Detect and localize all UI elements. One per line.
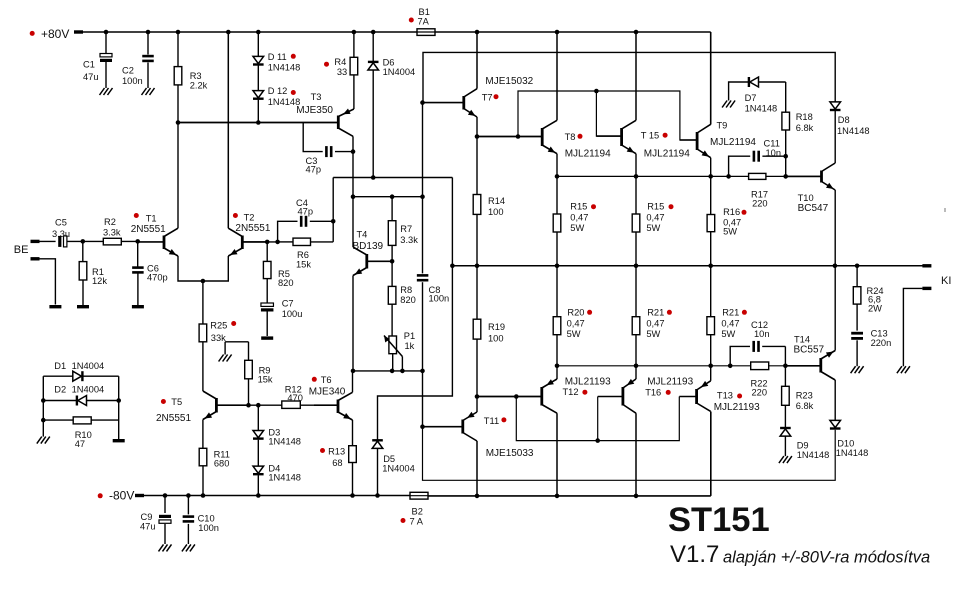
resistor R3 2.2k xyxy=(176,30,181,35)
wire -80V rail end rise to T13 collector xyxy=(710,412,712,496)
transistor T11 MJE15033 xyxy=(461,420,464,434)
svg-text:2N5551: 2N5551 xyxy=(131,224,166,235)
wire T10 emitter to output xyxy=(834,190,836,266)
svg-text:33k: 33k xyxy=(211,333,226,343)
capacitor C9 47u xyxy=(164,496,166,514)
capacitor C12 10n xyxy=(730,346,750,365)
wire BE- to ground xyxy=(40,259,56,305)
svg-text:1N4148: 1N4148 xyxy=(837,126,870,136)
svg-text:R16: R16 xyxy=(723,207,740,217)
diode D1 1N4004 xyxy=(43,375,73,377)
wire BE+ to C5 xyxy=(40,240,56,242)
svg-text:R15: R15 xyxy=(570,202,587,212)
svg-text:1N4148: 1N4148 xyxy=(268,473,301,483)
capacitor C11 10n xyxy=(729,156,751,176)
wire +80V top rail xyxy=(83,31,711,33)
svg-text:5W: 5W xyxy=(570,223,584,233)
svg-text:R19: R19 xyxy=(488,322,505,332)
svg-text:MJE350: MJE350 xyxy=(296,105,333,116)
transistor T1 2N5551 xyxy=(163,236,166,250)
svg-text:15k: 15k xyxy=(258,375,273,385)
svg-text:MJE15032: MJE15032 xyxy=(485,76,533,87)
resistor R7 3.3k xyxy=(391,197,393,221)
ground R9 top xyxy=(224,342,226,355)
svg-text:6.8k: 6.8k xyxy=(796,401,814,411)
resistor R5 820 xyxy=(265,240,270,245)
wire T11 base node xyxy=(422,371,424,427)
svg-text:3.3k: 3.3k xyxy=(103,228,121,238)
svg-text:R21: R21 xyxy=(722,308,739,318)
resistor R15 0.47 5W xyxy=(556,176,558,214)
svg-text:C7: C7 xyxy=(282,299,294,309)
transistor T16 MJL21193 xyxy=(622,387,625,406)
svg-text:D1: D1 xyxy=(54,361,66,371)
svg-text:T4: T4 xyxy=(357,230,368,240)
wire T6 collector xyxy=(352,371,354,392)
svg-text:ST151: ST151 xyxy=(668,501,770,539)
wire bias bottom line xyxy=(353,370,423,372)
svg-text:D 12: D 12 xyxy=(268,86,288,96)
svg-text:C10: C10 xyxy=(198,514,215,524)
svg-text:820: 820 xyxy=(278,278,294,288)
resistor R20 0.47 5W xyxy=(556,266,558,317)
wire lower base zig line xyxy=(516,397,679,441)
ground C10 xyxy=(182,544,195,551)
wire T11 collector to -80V xyxy=(476,441,478,496)
resistor R24 6.8 2W xyxy=(856,266,858,287)
ground C9 xyxy=(159,544,172,551)
svg-text:P1: P1 xyxy=(404,331,415,341)
wire T12 collector xyxy=(556,413,558,496)
svg-text:T2: T2 xyxy=(244,212,255,222)
svg-text:0,47: 0,47 xyxy=(646,319,664,329)
resistor R17 220 xyxy=(749,173,766,179)
svg-text:B2: B2 xyxy=(412,507,423,517)
svg-text:C1: C1 xyxy=(83,59,95,69)
ground C6 xyxy=(132,305,144,308)
svg-text:D6: D6 xyxy=(383,58,395,68)
svg-text:MJL21193: MJL21193 xyxy=(565,376,611,387)
svg-text:R25: R25 xyxy=(210,321,227,331)
wire T5 base line xyxy=(216,404,281,406)
svg-text:2N5551: 2N5551 xyxy=(235,223,270,234)
svg-text:MJL21194: MJL21194 xyxy=(565,148,611,159)
resistor R22 220 xyxy=(751,362,769,370)
svg-text:1N4004: 1N4004 xyxy=(72,385,105,395)
wire T15 base drop xyxy=(596,91,621,136)
svg-text:47u: 47u xyxy=(140,522,156,532)
capacitor C6 470p xyxy=(135,239,140,244)
svg-text:BC557: BC557 xyxy=(794,345,825,356)
svg-text:470p: 470p xyxy=(147,273,168,283)
resistor R25 33k xyxy=(199,324,207,342)
svg-text:R14: R14 xyxy=(488,196,505,206)
svg-text:C2: C2 xyxy=(122,66,134,76)
svg-text:T7: T7 xyxy=(482,93,493,103)
svg-text:100n: 100n xyxy=(198,523,219,533)
svg-text:1N4004: 1N4004 xyxy=(72,361,105,371)
wire T15 emitter xyxy=(635,154,637,177)
wire T11 emitter line to T12 base xyxy=(477,396,542,398)
wire upper emitter bus xyxy=(557,175,749,177)
svg-text:R23: R23 xyxy=(796,391,813,401)
node +80V terminal xyxy=(74,30,83,33)
svg-text:100n: 100n xyxy=(429,294,450,304)
svg-text:T10: T10 xyxy=(798,193,814,203)
fuse B2 7A xyxy=(410,492,428,499)
wire T8 emitter xyxy=(556,154,558,177)
fuse B1 7A xyxy=(417,29,435,36)
svg-text:100u: 100u xyxy=(282,309,303,319)
diode D12 1N4148 xyxy=(253,91,264,98)
svg-text:5W: 5W xyxy=(723,227,737,237)
svg-text:1N4148: 1N4148 xyxy=(268,436,301,446)
svg-text:C11: C11 xyxy=(764,138,780,148)
svg-text:T6: T6 xyxy=(321,375,332,385)
wire ground lift right xyxy=(118,376,120,439)
capacitor C7 100u xyxy=(261,303,274,306)
ground KI return xyxy=(897,366,910,373)
svg-text:R20: R20 xyxy=(567,308,584,318)
svg-text:1N4148: 1N4148 xyxy=(836,448,869,458)
wire T8 collector xyxy=(556,32,558,120)
wire T2 base xyxy=(242,241,277,243)
svg-text:R2: R2 xyxy=(104,217,116,227)
wire T16 collector xyxy=(635,413,637,496)
svg-text:5W: 5W xyxy=(646,223,660,233)
svg-text:5W: 5W xyxy=(567,329,581,339)
svg-text:T5: T5 xyxy=(171,397,182,407)
svg-text:C9: C9 xyxy=(141,512,153,522)
transistor T14 BC557 xyxy=(819,358,822,373)
ground R1 xyxy=(77,305,89,308)
svg-text:2W: 2W xyxy=(868,303,882,313)
svg-text:D 11: D 11 xyxy=(268,52,287,62)
diode D10 1N4148 xyxy=(834,380,836,421)
svg-text:5W: 5W xyxy=(646,329,660,339)
transistor T6 MJE340 xyxy=(337,400,340,414)
wire R3 bottom to T3 base line xyxy=(176,120,181,125)
wire T1 collector xyxy=(177,123,179,229)
svg-text:0,47: 0,47 xyxy=(567,319,585,329)
svg-text:10n: 10n xyxy=(754,329,770,339)
svg-text:R15: R15 xyxy=(647,202,664,212)
svg-text:alapján +/-80V-ra módosítva: alapján +/-80V-ra módosítva xyxy=(723,549,930,567)
svg-text:33: 33 xyxy=(337,67,347,77)
resistor R8 820 xyxy=(391,261,393,286)
svg-text:MJL21193: MJL21193 xyxy=(714,402,760,413)
svg-text:220: 220 xyxy=(752,198,768,208)
svg-text:D7: D7 xyxy=(745,93,757,103)
svg-text:47p: 47p xyxy=(306,165,322,175)
svg-text:47u: 47u xyxy=(83,72,99,82)
transistor T12 MJL21193 xyxy=(540,387,543,406)
wire T12 emitter xyxy=(556,366,558,379)
resistor R16 0.47 5W xyxy=(710,176,712,214)
resistor R4 33 xyxy=(352,30,357,35)
transistor T13 MJL21193 xyxy=(695,389,698,404)
resistor R6 15k xyxy=(275,240,280,245)
svg-text:100n: 100n xyxy=(122,76,143,86)
svg-text:BC547: BC547 xyxy=(798,203,829,214)
svg-text:MJL21193: MJL21193 xyxy=(647,376,693,387)
svg-text:R4: R4 xyxy=(334,57,346,67)
ground C1 xyxy=(100,88,113,95)
wire T7 collector to +80V xyxy=(476,32,478,89)
wire T11 emitter node xyxy=(476,397,478,413)
wire T13 emitter xyxy=(710,366,712,381)
stray tick mark xyxy=(944,208,946,212)
svg-text:1N4004: 1N4004 xyxy=(383,67,416,77)
wire T14 emitter to output xyxy=(834,266,836,351)
resistor R13 68 xyxy=(352,420,354,446)
svg-text:KI: KI xyxy=(941,275,951,287)
capacitor C5 3.3u xyxy=(58,236,61,247)
svg-text:680: 680 xyxy=(214,458,230,468)
transistor T4 BD139 xyxy=(365,254,368,269)
svg-text:R7: R7 xyxy=(400,224,412,234)
node KI output terminal xyxy=(922,264,931,267)
resistor R9 15k xyxy=(225,341,248,343)
transistor T3 MJE350 xyxy=(337,116,340,130)
svg-text:7A: 7A xyxy=(418,16,430,26)
svg-text:0,47: 0,47 xyxy=(646,213,664,223)
wire T7 emitter node xyxy=(476,117,478,195)
svg-text:BE: BE xyxy=(14,244,29,256)
potentiometer P1 1k xyxy=(389,336,397,354)
wire tail node xyxy=(201,279,206,284)
svg-text:T11: T11 xyxy=(484,416,499,426)
wire T16 emitter xyxy=(635,366,637,379)
svg-text:7 A: 7 A xyxy=(410,517,424,527)
svg-text:BD139: BD139 xyxy=(353,241,384,252)
node -80V terminal xyxy=(135,494,144,497)
resistor R12 470 xyxy=(282,401,301,408)
diode D9 1N4148 xyxy=(780,427,791,429)
svg-text:220: 220 xyxy=(752,387,768,397)
resistor R19 100 xyxy=(476,266,478,319)
resistor R15b 0.47 5W xyxy=(635,176,637,214)
resistor R21 0.47 5W xyxy=(635,266,637,317)
transistor T2 2N5551 xyxy=(241,236,244,250)
wire driver bias top line xyxy=(423,52,835,102)
svg-text:220n: 220n xyxy=(871,338,892,348)
transistor T9 MJL21194 xyxy=(696,132,699,150)
transistor T8 MJL21194 xyxy=(541,128,544,146)
svg-text:3.3k: 3.3k xyxy=(400,235,418,245)
svg-text:0,47: 0,47 xyxy=(570,213,588,223)
svg-text:T 15: T 15 xyxy=(641,131,659,141)
svg-text:MJL21194: MJL21194 xyxy=(644,148,690,159)
svg-text:T1: T1 xyxy=(146,214,157,224)
svg-text:1N4148: 1N4148 xyxy=(268,63,301,73)
svg-text:R18: R18 xyxy=(796,112,813,122)
wire T15 collector xyxy=(635,32,637,120)
ground BE- xyxy=(49,305,61,308)
wire base feed riser xyxy=(518,91,697,140)
wire T9 emitter xyxy=(710,158,712,177)
svg-text:T8: T8 xyxy=(565,132,576,142)
resistor R10 47 xyxy=(43,419,73,421)
svg-text:12k: 12k xyxy=(92,276,107,286)
svg-text:R21: R21 xyxy=(647,308,664,318)
wire -80V rail left of fuse xyxy=(143,495,410,497)
capacitor C1 47u xyxy=(105,32,107,54)
svg-text:68: 68 xyxy=(332,458,342,468)
svg-text:D8: D8 xyxy=(838,115,850,125)
svg-text:3.3u: 3.3u xyxy=(52,229,70,239)
diode D8 1N4148 xyxy=(830,102,841,109)
ground D7 xyxy=(722,101,735,108)
svg-text:-80V: -80V xyxy=(109,489,134,503)
svg-text:V1.7: V1.7 xyxy=(670,541,719,568)
svg-text:MJL21194: MJL21194 xyxy=(710,137,756,148)
svg-text:T16: T16 xyxy=(645,388,661,398)
transistor T7 MJE15032 xyxy=(462,96,465,110)
transistor T5 2N5551 xyxy=(215,398,218,413)
svg-text:T14: T14 xyxy=(794,335,810,345)
svg-text:C5: C5 xyxy=(55,218,67,228)
wire T8 base line xyxy=(477,136,542,138)
svg-text:100: 100 xyxy=(488,207,504,217)
svg-text:2N5551: 2N5551 xyxy=(156,413,191,424)
wire lower emitter bus xyxy=(557,365,751,367)
svg-text:T13: T13 xyxy=(717,391,733,401)
diode D3 1N4148 xyxy=(256,403,261,408)
svg-text:D9: D9 xyxy=(797,441,809,451)
svg-text:100: 100 xyxy=(488,334,504,344)
svg-text:47p: 47p xyxy=(298,207,314,217)
svg-text:T12: T12 xyxy=(563,387,579,397)
capacitor C4 47p xyxy=(278,221,298,242)
svg-text:1k: 1k xyxy=(405,341,415,351)
transistor T10 BC547 xyxy=(820,171,823,183)
svg-text:5W: 5W xyxy=(721,329,735,339)
wire bias top line xyxy=(353,196,423,198)
svg-text:15k: 15k xyxy=(296,259,311,269)
wire KI return xyxy=(922,287,931,290)
diode D7 1N4148 xyxy=(729,82,748,101)
resistor R2 3.3k xyxy=(83,240,104,242)
ground C7 xyxy=(261,336,273,339)
svg-text:+80V: +80V xyxy=(41,27,69,41)
wire T2 collector to +80V xyxy=(227,32,229,228)
resistor R18 6.8k xyxy=(785,82,787,112)
diode D5 1N4004 xyxy=(378,266,453,440)
wire output bus xyxy=(452,265,923,267)
capacitor C13 220n xyxy=(851,332,863,335)
svg-text:0,47: 0,47 xyxy=(721,319,739,329)
svg-text:47: 47 xyxy=(75,439,85,449)
wire -80V rail right of fuse xyxy=(428,495,711,497)
capacitor C10 100n xyxy=(187,496,189,515)
capacitor C3 47p xyxy=(303,123,323,152)
resistor R14 100 xyxy=(473,195,481,215)
wire T1 emitter xyxy=(178,256,228,281)
diode D11 1N4148 xyxy=(256,30,261,35)
resistor R23 6.8k xyxy=(784,366,786,387)
wire output link line xyxy=(333,177,452,179)
resistor R11 680 xyxy=(202,420,204,449)
wire T3 collector down xyxy=(352,136,354,196)
ground C13 xyxy=(851,366,864,373)
svg-text:1N4004: 1N4004 xyxy=(382,463,415,473)
capacitor C8 100n xyxy=(422,197,424,274)
svg-text:820: 820 xyxy=(400,295,416,305)
diode D4 1N4148 xyxy=(253,466,264,473)
diode D6 1N4004 xyxy=(371,30,376,35)
svg-text:R13: R13 xyxy=(328,447,345,457)
wire lower clamp line xyxy=(423,427,836,481)
svg-text:1N4148: 1N4148 xyxy=(745,104,778,114)
diode D2 1N4004 xyxy=(43,400,76,402)
svg-text:T3: T3 xyxy=(311,92,322,102)
transistor T15 MJL21194 xyxy=(620,128,623,146)
svg-text:MJE340: MJE340 xyxy=(309,387,346,398)
ground lift hatch xyxy=(37,437,50,444)
resistor R1 12k xyxy=(81,239,86,244)
capacitor C2 100n xyxy=(147,32,149,55)
resistor R21b 0.47 5W xyxy=(710,266,712,317)
ground D9 xyxy=(779,456,792,463)
wire T16 base drop xyxy=(597,397,599,441)
svg-text:6.8k: 6.8k xyxy=(796,123,814,133)
svg-text:MJE15033: MJE15033 xyxy=(486,448,534,459)
svg-text:T9: T9 xyxy=(717,121,728,131)
svg-text:470: 470 xyxy=(287,393,303,403)
svg-text:2.2k: 2.2k xyxy=(190,80,208,90)
svg-text:R8: R8 xyxy=(400,285,412,295)
ground C2 xyxy=(142,88,155,95)
svg-text:1N4148: 1N4148 xyxy=(797,450,830,460)
wire +80V rail drop to T9 collector xyxy=(710,32,712,125)
wire T4 collector up xyxy=(352,197,354,247)
svg-text:D2: D2 xyxy=(54,385,66,395)
wire T7 base node to C8 top xyxy=(422,103,424,197)
ground lift bar xyxy=(113,439,125,442)
svg-text:10n: 10n xyxy=(766,148,782,158)
wire ground lift left xyxy=(42,376,44,436)
wire T4 emitter down xyxy=(352,276,354,371)
